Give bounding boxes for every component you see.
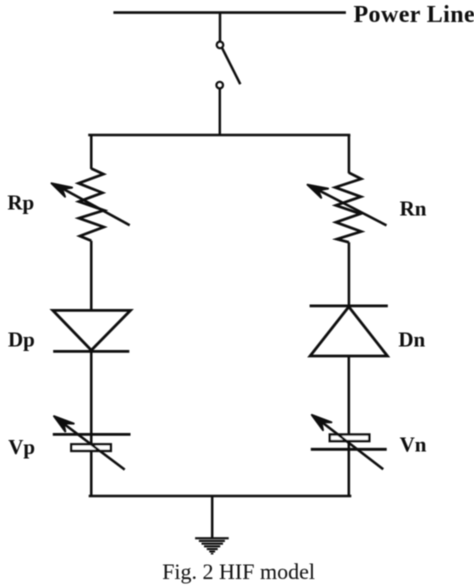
wire: Dn to Vn <box>348 356 351 496</box>
source Vp (variable DC source: long plate, hollow short plate, arrow) <box>53 416 131 469</box>
ground (earth symbol, stacked bars) <box>195 537 229 554</box>
svg-text:Dn: Dn <box>398 328 425 352</box>
svg-text:Rn: Rn <box>400 196 427 220</box>
wire: top bus to Rp <box>90 135 93 169</box>
wire: Dp to Vp <box>90 351 93 496</box>
switch S1 (open blade with two contact circles) <box>216 42 240 89</box>
wire: bottom bus <box>90 495 350 496</box>
diode Dp (anode top, pointing down) <box>53 310 131 351</box>
svg-text:Power Line: Power Line <box>354 2 474 28</box>
diode Dn (cathode bar on top, triangle pointing up) <box>310 306 388 356</box>
wire: switch to top bus <box>219 88 221 136</box>
svg-text:Rp: Rp <box>7 191 34 215</box>
wire: power line bus <box>113 11 346 14</box>
svg-text:Dp: Dp <box>8 327 35 351</box>
source Vn (variable DC source: hollow short plate on top, long plate below, arrow) <box>311 415 387 469</box>
resistor Rp (variable, zigzag with arrow) <box>52 169 130 241</box>
wire: top bus to Rn <box>348 135 351 173</box>
wire: bottom bus to ground <box>211 496 214 538</box>
wire: Rn to Dn <box>348 242 351 307</box>
wire: Rp to Dp <box>90 241 93 311</box>
svg-text:Fig. 2 HIF model: Fig. 2 HIF model <box>162 559 315 584</box>
svg-text:Vn: Vn <box>400 432 427 456</box>
svg-text:Vp: Vp <box>8 435 35 459</box>
resistor Rn (variable, zigzag with arrow) <box>308 173 387 243</box>
wire: top bus <box>90 135 350 136</box>
wire: power line to switch <box>219 13 221 42</box>
